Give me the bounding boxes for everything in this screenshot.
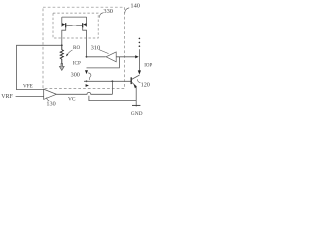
- wire 310 output to mirror: [87, 56, 106, 58]
- resistor RO: [60, 45, 63, 63]
- label RO: [66, 45, 81, 57]
- wire emitter to ground: [135, 87, 137, 107]
- svg-text:140: 140: [130, 3, 140, 10]
- svg-text:300: 300: [71, 71, 80, 78]
- transistor 120 (output BJT): [131, 75, 139, 88]
- wire VRF input: [16, 95, 44, 97]
- node C (VC drop junction): [112, 80, 114, 82]
- dashed block 330 (current mirror inner box): [53, 13, 98, 38]
- svg-text:VRF: VRF: [1, 94, 13, 100]
- ground: [132, 104, 140, 106]
- wire feedback loop down: [87, 57, 120, 68]
- amplifier 130 (error amp buffer): [44, 89, 57, 99]
- svg-text:VFE: VFE: [23, 83, 33, 89]
- wire VFE feedback: [17, 45, 62, 89]
- svg-text:GND: GND: [131, 111, 143, 117]
- current arrow ICP into node: [85, 70, 88, 74]
- svg-text:RO: RO: [73, 45, 80, 51]
- svg-text:VC: VC: [68, 97, 76, 103]
- svg-text:330: 330: [103, 8, 113, 15]
- svg-text:ICP: ICP: [73, 60, 81, 66]
- wire VC riser: [111, 81, 113, 94]
- svg-text:IOP: IOP: [144, 64, 152, 69]
- svg-text:310: 310: [91, 45, 101, 52]
- wire ground return drop: [89, 96, 136, 101]
- wire base drive: [84, 80, 131, 82]
- transistor M1 (left mirror FET): [62, 17, 66, 45]
- svg-text:120: 120: [141, 81, 150, 88]
- op-amp 310 (left-pointing buffer): [106, 52, 116, 62]
- wire right drain branch: [86, 56, 88, 58]
- current source 300 arrow (ICP source): [59, 64, 64, 71]
- port arrow out of box: [86, 84, 89, 87]
- wire 310 input from IOP sense: [116, 56, 135, 58]
- label 140: [125, 3, 140, 14]
- wire gate tie: [66, 25, 72, 27]
- dashed block 140 (bias controller outer box): [43, 7, 125, 88]
- svg-text:130: 130: [46, 101, 55, 108]
- leader curl 300: [88, 73, 91, 80]
- wire VC output: [56, 92, 112, 94]
- wire top supply rail: [62, 16, 87, 18]
- node A (left drain / VFE tap): [61, 44, 63, 46]
- wire IOP with current arrow: [138, 49, 141, 74]
- node B (charge pump output on base wire): [86, 80, 88, 82]
- label 120: [138, 79, 150, 88]
- label 330: [99, 8, 112, 18]
- label 310: [91, 45, 109, 54]
- transistor M2 (right mirror FET): [83, 17, 87, 57]
- label 130: [46, 97, 55, 107]
- vertical ellipsis (IOP supply continues): [139, 38, 141, 47]
